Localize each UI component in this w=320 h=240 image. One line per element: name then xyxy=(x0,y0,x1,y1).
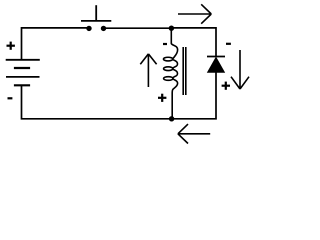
switch SW1 pushbutton contact dot right xyxy=(101,26,106,31)
current arrow up (inductor branch) xyxy=(140,54,156,87)
inductor L1 loop 2 xyxy=(164,67,173,71)
node junction dot top (inductor tap) xyxy=(169,26,174,31)
wire left rail bottom (battery to bottom rail) xyxy=(22,85,172,119)
battery - label xyxy=(8,97,13,99)
current arrow down (diode branch) xyxy=(231,50,249,89)
inductor L1 loop 1 xyxy=(164,57,173,61)
battery B1 plate 3 long xyxy=(6,76,40,78)
wire top rail middle (switch to junction) xyxy=(104,27,172,29)
diode D1 triangle xyxy=(208,57,225,72)
current arrow right (top) xyxy=(178,4,211,23)
battery B1 plate 4 short (-) xyxy=(14,84,30,86)
battery B1 plate 2 short xyxy=(14,67,30,69)
switch SW1 pushbutton contact dot left xyxy=(86,26,91,31)
inductor L1 core line 2 xyxy=(185,47,187,95)
switch SW1 actuator bar xyxy=(81,20,111,22)
node junction dot bottom (inductor tap) xyxy=(169,116,174,121)
diode D1 cathode bar xyxy=(207,56,225,58)
diode - label xyxy=(226,43,231,45)
wire top rail left (battery to switch) xyxy=(22,28,90,60)
battery B1 plate 1 long (+) xyxy=(6,59,40,61)
wire bottom rail right xyxy=(172,72,216,119)
inductor + label xyxy=(158,94,166,102)
wire top rail right (junction to right corner) xyxy=(171,28,216,57)
inductor - label xyxy=(163,43,167,45)
current arrow left (bottom) xyxy=(178,124,210,143)
inductor L1 loop 3 xyxy=(164,77,173,81)
inductor L1 coil spine with bulges xyxy=(171,28,177,119)
switch SW1 actuator stem xyxy=(95,5,97,21)
battery + label xyxy=(7,42,15,50)
inductor L1 core line 1 xyxy=(182,47,184,95)
diode + label xyxy=(222,82,230,90)
